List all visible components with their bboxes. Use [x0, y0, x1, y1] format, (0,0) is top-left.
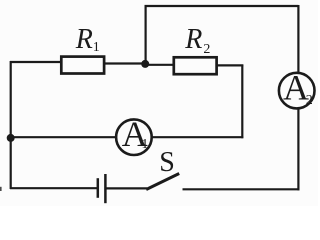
svg-text:S: S: [159, 147, 175, 178]
wire R1 right lead: [104, 62, 146, 64]
wire A1 right lead: [152, 136, 244, 138]
edge artifact left border tick: [0, 187, 2, 191]
wire left rail vertical: [10, 61, 12, 189]
svg-text:1: 1: [93, 40, 100, 55]
wire R2 left lead: [144, 64, 175, 66]
switch S blade: [146, 174, 179, 190]
resistor R2: [174, 57, 217, 74]
wire bottom right segment: [183, 188, 300, 190]
wire bottom middle segment: [106, 187, 147, 189]
svg-text:2: 2: [306, 93, 313, 108]
svg-text:1: 1: [141, 137, 148, 152]
wire R2 right lead: [216, 64, 243, 66]
resistor R1: [61, 57, 104, 74]
wire R1 left lead: [10, 61, 62, 63]
wire R2 branch vertical: [241, 65, 243, 139]
node junction dot left: [7, 134, 15, 142]
ammeter A2: [279, 73, 315, 109]
battery long plate: [104, 174, 107, 203]
svg-text:R: R: [75, 24, 93, 55]
wire bottom left segment: [10, 187, 97, 189]
ammeter A1: [116, 119, 152, 155]
wire center vertical up: [145, 6, 147, 64]
svg-text:2: 2: [203, 42, 210, 57]
node junction dot center: [141, 60, 149, 68]
wire right rail upper: [297, 5, 299, 74]
wire top horizontal: [145, 5, 299, 7]
battery short plate: [97, 178, 100, 198]
svg-text:R: R: [184, 24, 202, 55]
wire right rail lower: [297, 108, 299, 190]
wire A1 left lead: [10, 136, 117, 138]
